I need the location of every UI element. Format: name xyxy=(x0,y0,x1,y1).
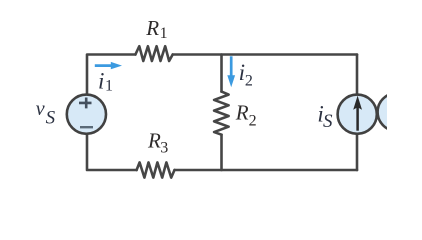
label vS xyxy=(36,98,56,129)
voltage source vS xyxy=(67,95,106,134)
label R1 xyxy=(145,16,167,42)
label R3 xyxy=(147,129,168,157)
svg-text:3: 3 xyxy=(160,139,168,156)
label iS xyxy=(317,102,333,132)
vS minus polarity mark xyxy=(80,126,93,128)
partial source circle (clipped at figure edge) xyxy=(378,93,416,131)
svg-text:S: S xyxy=(46,108,56,129)
svg-text:R: R xyxy=(235,100,249,124)
svg-text:R: R xyxy=(147,129,161,153)
svg-text:2: 2 xyxy=(249,113,257,130)
resistor R3 xyxy=(137,162,175,177)
wire top-right segment xyxy=(173,53,357,56)
wire right branch lower xyxy=(356,134,359,170)
svg-text:2: 2 xyxy=(245,72,253,89)
label i2 xyxy=(239,60,253,89)
wire bottom-right segment xyxy=(175,169,358,172)
current arrow i1 xyxy=(95,62,122,69)
resistor R1 xyxy=(135,46,172,61)
svg-text:R: R xyxy=(145,16,159,40)
wire right branch upper xyxy=(356,55,359,95)
svg-text:S: S xyxy=(323,111,333,132)
wire middle branch lower xyxy=(220,135,223,170)
label R2 xyxy=(235,100,257,129)
svg-text:v: v xyxy=(36,98,45,120)
wire bottom-left segment xyxy=(87,134,137,170)
svg-text:i: i xyxy=(98,68,104,93)
resistor R2 xyxy=(214,92,229,135)
current arrow i2 xyxy=(227,56,235,87)
current source iS xyxy=(338,95,377,134)
svg-text:1: 1 xyxy=(160,25,168,42)
iS direction arrow xyxy=(356,107,359,131)
wire top-left segment xyxy=(87,55,135,95)
vS plus polarity mark xyxy=(79,98,92,109)
wire middle branch upper xyxy=(220,55,223,92)
svg-text:1: 1 xyxy=(105,78,113,95)
label i1 xyxy=(98,68,113,94)
